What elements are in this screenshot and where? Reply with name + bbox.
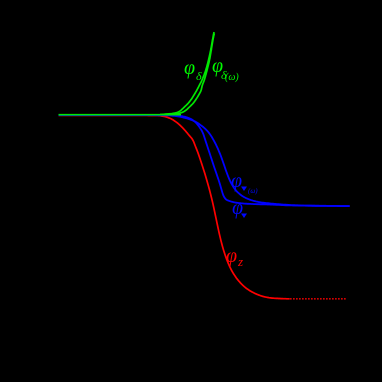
curve phi_delta green 1 — [164, 32, 214, 114]
curve phi_v(omega) blue upper — [59, 115, 350, 206]
label phi_v blue lower — [232, 198, 243, 218]
label phi_z red — [226, 246, 237, 266]
curve phi_v blue lower — [59, 115, 350, 206]
common flat line (green on top) — [59, 114, 182, 116]
label phi_delta green left — [184, 58, 195, 78]
label phi_v(omega) blue upper — [231, 171, 242, 191]
curve phi_z red dotted tail — [290, 298, 347, 300]
label phi_delta(omega) green right — [212, 56, 223, 76]
curve phi_z red solid part — [59, 115, 290, 298]
curve phi_delta(omega) green 2 — [160, 34, 214, 115]
